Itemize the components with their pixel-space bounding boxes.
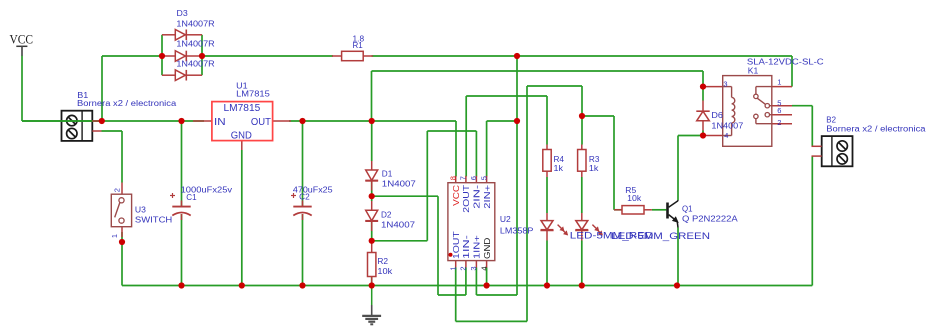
svg-text:D2: D2 (381, 210, 392, 219)
svg-text:4: 4 (479, 266, 488, 270)
svg-text:C1: C1 (186, 193, 197, 202)
svg-text:10k: 10k (377, 267, 393, 276)
svg-text:B2: B2 (826, 115, 836, 124)
svg-text:6: 6 (469, 176, 478, 180)
svg-text:6: 6 (777, 106, 781, 115)
svg-text:LM7815: LM7815 (224, 103, 261, 114)
svg-text:GND: GND (231, 131, 252, 142)
svg-text:1N4007R: 1N4007R (176, 60, 215, 69)
svg-text:U2: U2 (500, 215, 511, 224)
svg-text:1k: 1k (554, 164, 565, 173)
svg-text:1N4007: 1N4007 (381, 220, 416, 229)
svg-text:2IN-: 2IN- (473, 184, 482, 208)
svg-text:2IN+: 2IN+ (483, 184, 492, 208)
svg-text:3: 3 (723, 79, 727, 88)
svg-text:K1: K1 (748, 66, 759, 75)
svg-text:2: 2 (113, 188, 122, 192)
svg-text:LED-5MM_GREEN: LED-5MM_GREEN (611, 231, 710, 241)
svg-text:LM7815: LM7815 (236, 89, 270, 98)
svg-text:8: 8 (448, 176, 457, 180)
svg-text:1: 1 (777, 78, 781, 87)
svg-text:U3: U3 (135, 205, 147, 214)
svg-text:SWITCH: SWITCH (135, 216, 173, 225)
svg-text:1N4007R: 1N4007R (176, 39, 215, 48)
svg-text:1OUT: 1OUT (452, 231, 461, 259)
svg-text:R2: R2 (377, 257, 388, 266)
svg-text:D1: D1 (382, 170, 393, 179)
svg-text:1: 1 (448, 266, 457, 270)
svg-text:1k: 1k (589, 164, 600, 173)
svg-text:7: 7 (459, 176, 468, 180)
svg-text:1IN-: 1IN- (462, 235, 471, 259)
svg-text:VCC: VCC (10, 33, 34, 47)
svg-text:GND: GND (483, 237, 492, 259)
svg-text:1IN+: 1IN+ (473, 235, 482, 259)
svg-text:R1: R1 (353, 41, 364, 50)
svg-text:1N4007: 1N4007 (711, 122, 744, 131)
svg-text:5: 5 (479, 176, 488, 180)
svg-text:SLA-12VDC-SL-C: SLA-12VDC-SL-C (747, 58, 824, 67)
svg-text:Bornera x2 / electronica: Bornera x2 / electronica (77, 99, 177, 108)
svg-text:3: 3 (469, 266, 478, 270)
svg-text:IN: IN (214, 117, 226, 128)
svg-text:D6: D6 (711, 111, 723, 120)
svg-text:2OUT: 2OUT (462, 185, 471, 213)
svg-text:1: 1 (110, 234, 119, 238)
svg-text:Bornera x2 / electronica: Bornera x2 / electronica (826, 125, 926, 134)
svg-text:2: 2 (777, 118, 781, 127)
svg-text:4: 4 (724, 131, 728, 140)
svg-text:10k: 10k (627, 194, 642, 203)
svg-text:C2: C2 (299, 193, 310, 202)
svg-text:Q P2N2222A: Q P2N2222A (682, 215, 738, 224)
svg-text:LM358P: LM358P (500, 227, 534, 236)
svg-text:VCC: VCC (452, 185, 461, 206)
svg-text:Q1: Q1 (682, 205, 693, 214)
svg-text:D3: D3 (177, 9, 189, 18)
svg-text:1N4007R: 1N4007R (176, 19, 215, 28)
svg-text:OUT: OUT (251, 117, 271, 128)
svg-text:2: 2 (459, 266, 468, 270)
svg-text:1N4007: 1N4007 (382, 180, 417, 189)
